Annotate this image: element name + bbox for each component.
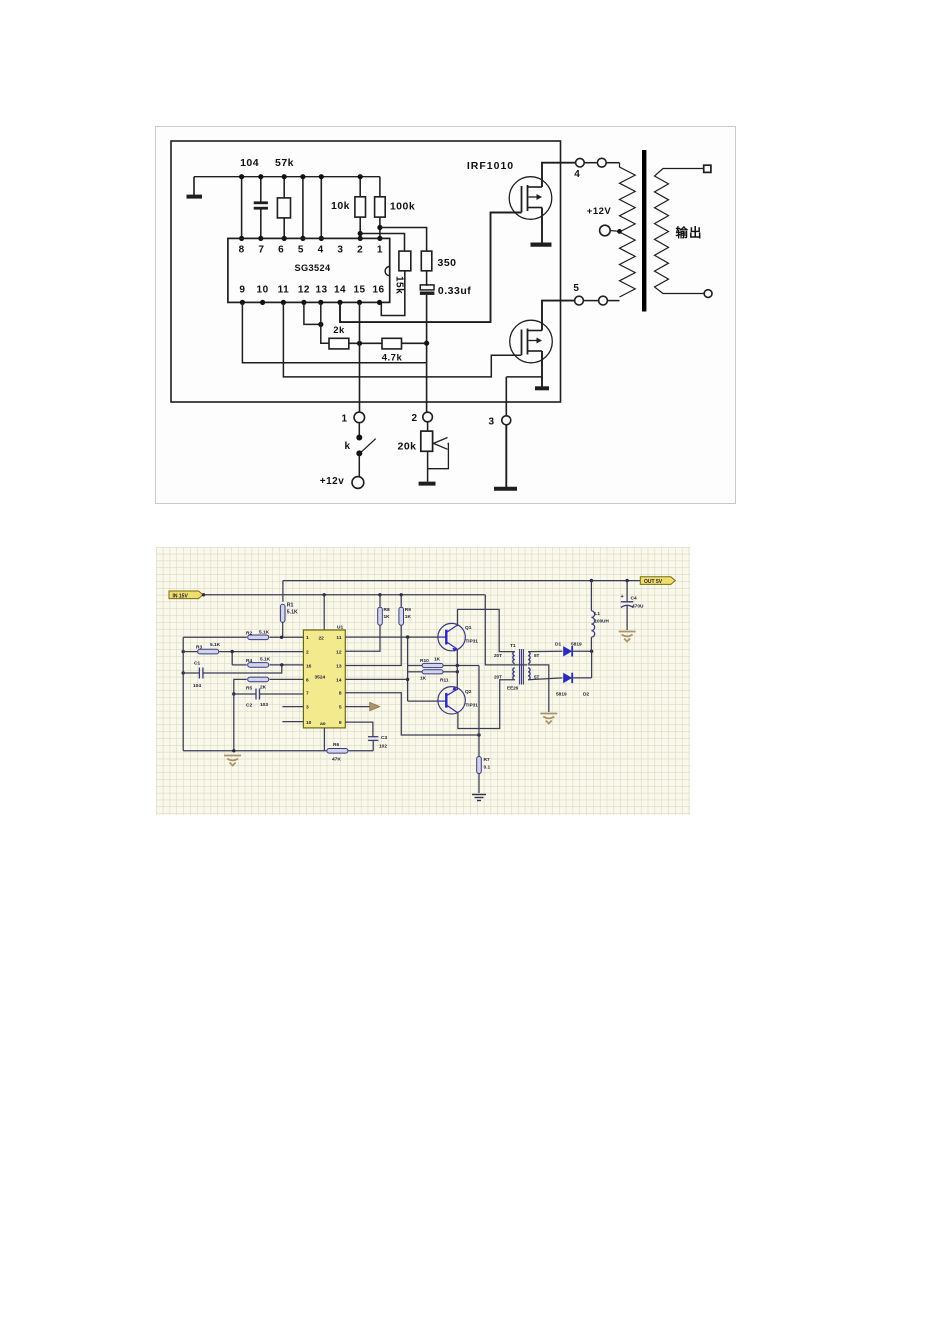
svg-text:102: 102 — [379, 744, 387, 750]
pin3 stub — [282, 706, 303, 708]
wire Q2 bottom to transformer bottom lead — [457, 680, 515, 729]
diode D1 5819 — [563, 646, 572, 656]
svg-text:104: 104 — [240, 157, 259, 169]
wire pin14 to Q1 gate — [340, 213, 522, 323]
svg-text:ao: ao — [320, 722, 326, 727]
svg-text:8: 8 — [239, 245, 245, 256]
wire IN rail — [204, 594, 486, 596]
wire +15V down to transformer center lead — [485, 595, 527, 665]
wire pin11 to Q1 base — [345, 636, 438, 638]
wire secondary top to D1 — [528, 650, 562, 652]
svg-text:47K: 47K — [332, 757, 341, 763]
svg-text:EE26: EE26 — [507, 686, 519, 691]
wire D2 cathode up to D1 — [591, 651, 593, 678]
svg-text:12: 12 — [298, 285, 310, 296]
svg-text:C2: C2 — [246, 703, 252, 709]
resistor 10k — [359, 177, 361, 197]
photo: Protel SG3524 push-pull converter schematic — [156, 547, 690, 815]
svg-text:4: 4 — [318, 245, 324, 256]
svg-text:TIP31: TIP31 — [466, 703, 479, 708]
svg-text:1: 1 — [377, 245, 383, 256]
transformer secondary winding — [655, 169, 705, 294]
IC SG3524 — [228, 238, 390, 302]
svg-text:+12V: +12V — [587, 206, 612, 217]
net label OUT 5V — [640, 577, 675, 585]
terminal 5 circles — [575, 296, 584, 305]
wire pin4 column — [320, 177, 322, 239]
svg-text:9: 9 — [239, 285, 245, 296]
svg-text:100UH: 100UH — [595, 619, 610, 624]
transistor Q1 TIP31 — [438, 623, 465, 650]
left bus wire — [182, 637, 184, 751]
transformer core — [642, 150, 646, 312]
resistor R2 5.1K and pin1 wire — [183, 636, 247, 638]
svg-text:0.1: 0.1 — [484, 765, 491, 771]
capacitor 0.33uf — [420, 285, 434, 290]
ground under 20k — [419, 482, 436, 486]
wire pin8 column — [241, 177, 243, 239]
svg-text:1K: 1K — [420, 676, 427, 682]
wire pin14 — [345, 678, 407, 680]
wire Q2 drain — [542, 301, 575, 331]
svg-text:0.33uf: 0.33uf — [438, 285, 471, 297]
svg-text:5819: 5819 — [556, 692, 567, 698]
transformer secondary windings 5T 5T — [528, 652, 530, 664]
svg-text:2k: 2k — [333, 325, 345, 336]
svg-text:D2: D2 — [583, 692, 589, 698]
svg-text:7: 7 — [306, 691, 309, 697]
svg-text:3: 3 — [306, 705, 309, 711]
svg-text:输出: 输出 — [675, 225, 702, 240]
svg-text:5819: 5819 — [571, 642, 582, 648]
wire pin12 — [304, 302, 321, 324]
svg-text:IN 15V: IN 15V — [173, 593, 189, 599]
svg-text:2: 2 — [411, 413, 417, 424]
resistor R8 1K pin12 wire — [379, 595, 381, 608]
wire OUT rail — [283, 580, 640, 582]
svg-text:4: 4 — [574, 169, 580, 180]
svg-text:15: 15 — [353, 285, 365, 296]
wire Q1 collector to transformer top lead — [457, 609, 515, 651]
wire pin15 to terminal 1 — [359, 302, 361, 412]
wire pin13 to 2k — [321, 302, 329, 343]
svg-text:14: 14 — [336, 677, 342, 683]
wire pin2 to 15k — [360, 234, 404, 252]
svg-text:R9: R9 — [405, 607, 411, 613]
svg-text:C3: C3 — [381, 735, 387, 741]
svg-text:6: 6 — [306, 677, 309, 683]
wire C2 junction down to bottom wire — [233, 694, 235, 751]
svg-text:10: 10 — [306, 720, 312, 726]
ground under R7 — [472, 795, 486, 801]
inductor L1 100UH — [590, 581, 592, 611]
svg-text:5: 5 — [298, 245, 304, 256]
wire 15k to pin16 — [381, 271, 405, 316]
svg-text:Q1: Q1 — [465, 625, 472, 631]
wire secondary bottom to D2 — [528, 678, 562, 680]
bottom wire — [183, 750, 326, 752]
svg-text:13: 13 — [315, 285, 327, 296]
svg-text:R3: R3 — [196, 645, 202, 651]
mosfet Q2 IRF1010 — [510, 320, 553, 363]
svg-text:R5: R5 — [246, 686, 252, 692]
svg-text:C1: C1 — [194, 661, 200, 667]
capacitor C4 470U — [626, 581, 628, 602]
svg-text:13: 13 — [336, 664, 342, 670]
resistor 100k — [379, 177, 381, 197]
svg-text:R6: R6 — [333, 742, 339, 748]
center tap +12V — [600, 225, 611, 236]
terminal 2 and 20k pot — [423, 412, 433, 422]
svg-text:IRF1010: IRF1010 — [467, 160, 514, 172]
resistor R4 5.1K pin16 wire — [231, 652, 233, 665]
resistor R9 1K pin13 wire — [400, 595, 402, 608]
IC U1 3524 — [303, 630, 345, 728]
wire IN rail to IC top pin — [323, 595, 325, 630]
svg-text:9: 9 — [339, 720, 342, 726]
svg-text:57k: 57k — [275, 157, 294, 169]
outer border box — [171, 141, 561, 402]
svg-text:OUT 5V: OUT 5V — [644, 579, 663, 585]
svg-text:R4: R4 — [246, 658, 252, 664]
wire 350 to cap — [426, 271, 428, 286]
ground under C4 — [619, 632, 636, 642]
svg-text:11: 11 — [336, 635, 341, 641]
ground — [193, 177, 195, 196]
resistor R6 47K — [327, 749, 348, 754]
svg-text:T1: T1 — [510, 643, 516, 649]
wire pin5 column — [302, 177, 304, 239]
svg-text:14: 14 — [334, 285, 346, 296]
wire secondary center tap to ground — [528, 665, 549, 712]
resistor 57k — [283, 177, 285, 198]
ground bottom left — [224, 756, 241, 766]
svg-text:5.1K: 5.1K — [259, 630, 270, 636]
wire IC bottom pin — [323, 728, 325, 751]
svg-text:5T: 5T — [534, 653, 540, 658]
svg-text:2: 2 — [306, 649, 309, 655]
svg-text:15k: 15k — [393, 276, 404, 294]
transformer primary windings 20T 20T — [513, 652, 515, 664]
svg-text:11: 11 — [278, 285, 290, 296]
output terminal circle — [704, 290, 712, 298]
svg-text:R10: R10 — [420, 658, 429, 664]
pot wiper arrow — [434, 438, 448, 444]
svg-text:10: 10 — [257, 285, 269, 296]
resistor R5 2K pin6 wire — [234, 679, 247, 694]
wire pin9 to C3 — [345, 722, 373, 737]
svg-text:16: 16 — [372, 285, 384, 296]
wire pin11 to Q2 gate — [283, 302, 521, 377]
capacitor C2 103 pin7 wire — [232, 692, 235, 695]
svg-text:+: + — [621, 594, 624, 600]
svg-text:20k: 20k — [397, 441, 416, 453]
transformer T1 core — [519, 649, 521, 685]
svg-text:5: 5 — [573, 283, 579, 294]
svg-text:U1: U1 — [337, 625, 343, 631]
svg-text:5.1K: 5.1K — [260, 657, 271, 663]
svg-text:R7: R7 — [484, 757, 490, 763]
svg-text:350: 350 — [437, 257, 456, 269]
resistor R10 1K — [408, 665, 423, 667]
terminal 3 and ground — [502, 416, 511, 425]
resistor 15k — [399, 251, 411, 271]
svg-text:16: 16 — [306, 664, 312, 670]
svg-text:20T: 20T — [494, 653, 502, 658]
resistor R3 5.1K and pin2 wire — [182, 650, 185, 653]
svg-text:D1: D1 — [555, 642, 561, 648]
svg-text:6: 6 — [278, 245, 284, 256]
wire cap to terminal 2 — [426, 295, 428, 412]
resistor R1 5.1K — [282, 581, 284, 602]
photo: hand-drawn SG3524 inverter schematic — [155, 126, 736, 504]
wire pin1 to 350 — [380, 228, 427, 252]
capacitor C1 104 — [182, 671, 185, 674]
svg-text:3: 3 — [337, 245, 343, 256]
terminal 1 and switch k and +12v — [354, 412, 365, 423]
wire to Q2 base — [408, 700, 438, 702]
svg-text:R11: R11 — [440, 678, 449, 684]
svg-text:SG3524: SG3524 — [294, 263, 331, 273]
resistor R11 1K — [408, 671, 423, 673]
resistor 4.7k — [382, 338, 402, 349]
wire emitter junction down to R7 — [478, 666, 480, 757]
svg-text:+12v: +12v — [320, 476, 345, 487]
resistor R7 0.1 — [477, 757, 482, 774]
wire top bus — [194, 176, 380, 178]
transformer primary winding — [620, 163, 636, 297]
svg-text:470U: 470U — [632, 604, 644, 610]
resistor 350 — [421, 251, 432, 271]
svg-text:3524: 3524 — [315, 675, 326, 681]
svg-text:12: 12 — [336, 649, 342, 655]
capacitor 104 — [260, 177, 262, 202]
svg-text:R8: R8 — [384, 607, 390, 613]
pin10 stub — [282, 721, 303, 723]
svg-text:2: 2 — [357, 245, 363, 256]
wire Q1 drain — [542, 163, 576, 187]
svg-text:TIP31: TIP31 — [466, 639, 479, 644]
svg-text:C4: C4 — [631, 596, 637, 602]
svg-text:4.7k: 4.7k — [382, 353, 403, 364]
svg-text:7: 7 — [258, 245, 264, 256]
svg-text:8: 8 — [339, 691, 342, 697]
svg-text:100k: 100k — [390, 201, 415, 213]
wire Q1 emitter down to Q2 collector — [456, 649, 458, 690]
terminal 4 circles — [576, 158, 585, 167]
IC bottom pin dots — [240, 300, 245, 305]
net label IN 15V — [169, 591, 203, 599]
svg-text:L1: L1 — [595, 611, 601, 617]
svg-text:103: 103 — [260, 702, 268, 708]
output terminal square — [704, 165, 711, 172]
wire pin9 to terminal2 column — [242, 302, 426, 362]
svg-text:10k: 10k — [331, 200, 350, 212]
svg-text:R2: R2 — [246, 631, 252, 637]
svg-text:3: 3 — [488, 416, 494, 427]
power port pin5 arrow — [345, 706, 369, 708]
wire pin8 to sense rail — [345, 693, 479, 735]
svg-text:5.1K: 5.1K — [210, 642, 221, 648]
svg-text:k: k — [344, 441, 350, 452]
svg-text:22: 22 — [319, 636, 325, 642]
diode D2 5819 — [563, 673, 572, 683]
svg-text:1: 1 — [341, 413, 347, 424]
svg-text:1: 1 — [306, 635, 309, 641]
wire Q2 source tap to terminal 3 — [506, 376, 542, 378]
svg-text:Q2: Q2 — [465, 689, 472, 695]
svg-text:20T: 20T — [494, 675, 502, 680]
svg-text:R1: R1 — [287, 603, 294, 609]
svg-text:2K: 2K — [260, 685, 267, 691]
capacitor C3 102 — [372, 740, 374, 750]
wire Q1 source to ground — [541, 208, 543, 244]
resistor 2k — [329, 338, 349, 349]
svg-text:104: 104 — [193, 683, 201, 689]
wire Q2 source to ground — [541, 351, 543, 387]
svg-text:5: 5 — [339, 705, 342, 711]
svg-text:5.1K: 5.1K — [287, 610, 298, 616]
transistor Q2 TIP31 — [438, 687, 465, 714]
svg-text:1K: 1K — [405, 614, 412, 620]
svg-text:1K: 1K — [384, 614, 391, 620]
svg-text:1K: 1K — [434, 657, 441, 663]
wire base junction vertical — [407, 637, 409, 701]
